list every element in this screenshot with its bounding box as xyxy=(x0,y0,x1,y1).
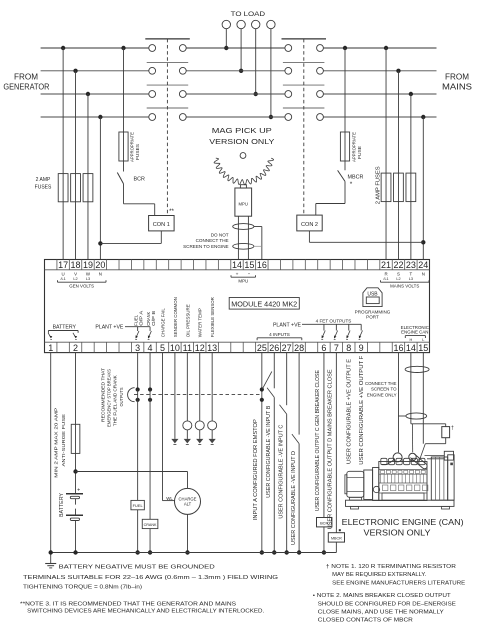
svg-text:CHARGE FAIL: CHARGE FAIL xyxy=(160,308,165,337)
wire CON2 coil to neutral xyxy=(309,231,423,242)
label ELECTRONIC ENGINE (CAN) xyxy=(342,517,464,527)
emergency stop contact on input A xyxy=(260,372,272,402)
svg-text:USER CONFIGURABLE -VE INPUT B: USER CONFIGURABLE -VE INPUT B xyxy=(266,405,272,498)
wire screen to twisted pair xyxy=(398,415,405,417)
wire mains T drop xyxy=(409,92,413,260)
svg-text:28: 28 xyxy=(294,343,304,353)
svg-text:16: 16 xyxy=(393,343,403,353)
wire MBCR feed xyxy=(343,46,347,132)
wire MBCR relay to ground bus xyxy=(335,542,337,552)
svg-text:V: V xyxy=(74,272,77,277)
wire resistor to CAN L xyxy=(425,438,445,444)
svg-text:MPU: MPU xyxy=(239,202,248,207)
svg-text:MODULE 4420 MK2: MODULE 4420 MK2 xyxy=(231,299,297,308)
svg-text:ANTI-SURGE FUSE: ANTI-SURGE FUSE xyxy=(61,414,67,467)
wire terminal 2 to fuse xyxy=(75,353,77,425)
svg-text:14: 14 xyxy=(232,260,242,270)
wire gen W drop xyxy=(86,92,90,260)
module name plate MODULE 4420 MK2 xyxy=(229,298,299,310)
wire FUEL to ground bus xyxy=(135,510,139,555)
svg-text:CLOSE MAINS, AND USE THE: CLOSE MAINS, AND USE THE NORMALLY xyxy=(318,609,444,615)
svg-text:USB: USB xyxy=(367,291,378,297)
svg-text:FUEL: FUEL xyxy=(133,503,144,508)
svg-text:†: † xyxy=(451,426,454,432)
twisted pair mark upper xyxy=(233,224,254,230)
svg-text:PLANT +VE: PLANT +VE xyxy=(95,325,124,331)
solenoid CRANK xyxy=(142,519,158,528)
wire water temp sender xyxy=(199,353,201,421)
top terminal numbers xyxy=(58,260,428,270)
svg-text:15: 15 xyxy=(418,343,428,353)
svg-text:FUSE: FUSE xyxy=(357,146,362,159)
svg-text:DO NOT: DO NOT xyxy=(211,232,229,237)
label 4 INPUTS bracket xyxy=(257,332,302,340)
label dagger note-1 marker xyxy=(451,426,454,432)
label MAG PICK UP VERSION ONLY xyxy=(209,126,274,146)
svg-text:14: 14 xyxy=(406,343,416,353)
svg-text:SCREEN TO: SCREEN TO xyxy=(371,387,397,392)
node PLANT +VE rail to 4 FET outputs xyxy=(273,319,363,340)
wire bus row L1 xyxy=(41,47,437,49)
svg-text:• NOTE 2. MAINS BREAKER CL: • NOTE 2. MAINS BREAKER CLOSED OUTPUT xyxy=(313,593,452,599)
wire input C upper xyxy=(286,353,288,406)
2A fuse mains T xyxy=(406,173,416,202)
label SENDER COMMON xyxy=(173,297,178,337)
wire terminal 1 to ground bus xyxy=(50,353,52,553)
svg-text:PROGRAMMING: PROGRAMMING xyxy=(355,309,391,314)
anti-surge fuse xyxy=(71,424,80,453)
label FROM MAINS xyxy=(442,72,472,91)
svg-text:BATTERY NEGATIVE MUST BE G: BATTERY NEGATIVE MUST BE GROUNDED xyxy=(59,565,215,571)
label * marker at MBCR relay xyxy=(339,529,341,531)
wire gen neutral drop xyxy=(98,115,102,260)
wire BCR relay to ground bus xyxy=(322,527,326,555)
wire flexible sender to ground xyxy=(211,430,213,439)
svg-text:GENERATOR: GENERATOR xyxy=(3,83,49,92)
svg-text:BATTERY: BATTERY xyxy=(53,324,77,330)
twisted pair mark CAN lower xyxy=(406,413,427,419)
wire load phase 4 xyxy=(269,29,273,120)
solenoid FUEL xyxy=(131,500,144,509)
label USER CONFIGURABLE -VE INPUT D xyxy=(291,451,297,545)
ground symbol oil sender xyxy=(184,439,191,445)
2A fuse mains R xyxy=(381,173,391,202)
module 4420 outline xyxy=(45,260,430,353)
svg-text:TIGHTENING TORQUE = 0.8Nm: TIGHTENING TORQUE = 0.8Nm (7lb–in) xyxy=(23,584,142,590)
wire CAN screen terminal 16 xyxy=(397,353,399,453)
wire input D upper xyxy=(298,353,300,435)
label USER CONFIGURABLE +VE OUTPUT F xyxy=(359,356,365,465)
BCR aux contact xyxy=(117,161,123,184)
engine CAN connection boss 2 xyxy=(409,453,416,460)
svg-text:10: 10 xyxy=(170,343,180,353)
svg-text:9: 9 xyxy=(359,343,364,353)
label BATTERY xyxy=(59,492,65,517)
svg-text:ENGINE ONLY: ENGINE ONLY xyxy=(367,392,397,397)
water temp sender xyxy=(195,421,204,430)
wire bus row L2 xyxy=(41,70,437,72)
label CHARGE FAIL xyxy=(160,308,165,337)
svg-text:2 AMP FUSES: 2 AMP FUSES xyxy=(376,166,382,205)
svg-text:VERSION ONLY: VERSION ONLY xyxy=(209,137,274,146)
label battery + xyxy=(77,488,80,494)
svg-text:BATTERY: BATTERY xyxy=(59,492,65,517)
svg-text:MBCR: MBCR xyxy=(331,537,342,541)
svg-text:OUTPUTS: OUTPUTS xyxy=(119,388,124,407)
2A fuse gen V xyxy=(71,174,81,202)
wire output D to MBCR relay xyxy=(335,353,337,533)
svg-text:MBCR: MBCR xyxy=(348,175,364,181)
svg-text:† NOTE 1. 120 R TERMINATIN: † NOTE 1. 120 R TERMINATING RESISTOR xyxy=(326,564,456,570)
svg-text:CON 1: CON 1 xyxy=(153,222,170,228)
svg-text:25: 25 xyxy=(257,343,267,353)
svg-text:13: 13 xyxy=(207,343,217,353)
genset bell housing xyxy=(364,468,379,501)
svg-text:17: 17 xyxy=(58,260,68,270)
svg-text:WATER TEMP: WATER TEMP xyxy=(198,308,203,337)
wire load phase 1 xyxy=(224,29,228,51)
svg-text:RECOMMENDED THAT: RECOMMENDED THAT xyxy=(100,368,105,422)
svg-text:15: 15 xyxy=(244,260,254,270)
label OIL PRESSURE xyxy=(185,304,190,337)
label * note-2 marker at MBCR xyxy=(350,181,353,188)
twisted pair mark CAN upper xyxy=(405,366,429,372)
label VERSION ONLY xyxy=(364,528,431,538)
svg-text:1: 1 xyxy=(48,343,53,353)
svg-text:PORT: PORT xyxy=(366,315,379,320)
label WL xyxy=(166,496,173,501)
svg-text:TO LOAD: TO LOAD xyxy=(231,11,266,18)
svg-text:12: 12 xyxy=(195,343,205,353)
wire flexible sender xyxy=(211,353,213,421)
dot battery on ground bus xyxy=(73,550,77,554)
svg-text:+: + xyxy=(77,488,80,494)
note 1 line 1 xyxy=(326,564,456,570)
svg-text:FUSES: FUSES xyxy=(35,185,52,191)
note tightening torque xyxy=(23,584,142,590)
label FLEXIBLE SENSOR xyxy=(210,297,215,338)
generator contactor main contacts xyxy=(145,39,190,121)
label FROM GENERATOR xyxy=(3,72,49,91)
bottom terminal numbers xyxy=(48,343,428,353)
label USER CONFIGURABLE -VE INPUT C xyxy=(279,424,285,518)
wire input A from terminal 25 xyxy=(261,353,263,553)
svg-text:SCREEN TO ENGINE: SCREEN TO ENGINE xyxy=(183,244,229,249)
svg-text:CLOSED CONTACTS OF MBCR: CLOSED CONTACTS OF MBCR xyxy=(318,618,413,624)
wire input B lower to bus xyxy=(272,397,276,555)
label FUEL O/P A xyxy=(134,311,144,326)
svg-text:2: 2 xyxy=(73,343,78,353)
svg-text:SWITCHING DEVICES ARE MECHA: SWITCHING DEVICES ARE MECHANICALLY AND E… xyxy=(27,609,264,615)
note 2 line 2 xyxy=(318,601,456,607)
node battery positive rail xyxy=(76,471,188,473)
svg-text:11: 11 xyxy=(183,343,192,353)
svg-text:SEE ENGINE MANUFACTURERS LI: SEE ENGINE MANUFACTURERS LITERATURE xyxy=(332,581,465,587)
resistor 120R terminating xyxy=(442,427,450,438)
note 2 line 1 xyxy=(313,593,452,599)
genset base skid xyxy=(346,500,455,509)
svg-text:EMERGENCY STOP BREAKS: EMERGENCY STOP BREAKS xyxy=(107,369,112,427)
appropriate fuse BCR xyxy=(119,132,128,161)
svg-text:USER CONFIGURABLE -VE INPUT C: USER CONFIGURABLE -VE INPUT C xyxy=(279,424,285,518)
engine CAN connection boss 1 xyxy=(393,453,402,462)
label APPROPRIATE FUSES left xyxy=(130,132,141,162)
wire bus row L3 xyxy=(41,93,437,95)
svg-text:18: 18 xyxy=(71,260,81,270)
MBCR aux contact xyxy=(338,161,345,181)
gear center mark xyxy=(240,153,246,159)
note 2 line 4 xyxy=(318,618,413,624)
svg-text:3: 3 xyxy=(135,343,140,353)
svg-text:O/P B: O/P B xyxy=(151,311,156,326)
label DO NOT CONNECT THE SCREEN TO ENGINE xyxy=(183,232,229,249)
svg-text:27: 27 xyxy=(282,343,292,353)
svg-text:N: N xyxy=(422,272,425,277)
node PLANT +VE rail to outputs A B xyxy=(95,325,151,340)
svg-text:H: H xyxy=(409,338,412,342)
svg-text:USER CONFIGURABLE OUTPUT D MAI: USER CONFIGURABLE OUTPUT D MAINS BREAKER… xyxy=(327,369,333,530)
wire crank contact to CRANK solenoid xyxy=(149,400,151,520)
label CRANK O/P B xyxy=(146,311,156,326)
wire arrow into terminal 2 (+VE) xyxy=(73,333,77,340)
wire BCR feed xyxy=(121,46,125,132)
wire MPU pair to terminals 14 15 xyxy=(238,216,248,259)
emergency stop contacts on fuel and crank xyxy=(136,387,153,402)
svg-text:APPROPRIATE: APPROPRIATE xyxy=(130,132,135,162)
mains contactor main contacts xyxy=(282,39,327,121)
ground symbol battery negative xyxy=(45,550,56,568)
svg-text:MAINS VOLTS: MAINS VOLTS xyxy=(390,283,419,288)
wire terminal 4 (crank) upper xyxy=(149,353,151,390)
svg-text:N: N xyxy=(99,272,102,277)
wire mains R drop xyxy=(384,46,388,260)
wire gen V drop xyxy=(73,69,77,260)
engine front pulley xyxy=(373,486,379,492)
svg-text:/L1: /L1 xyxy=(60,277,65,281)
wire CAN H into engine xyxy=(411,424,413,452)
2A fuse mains S xyxy=(394,173,404,202)
oil pressure sender xyxy=(183,421,192,430)
svg-text:**: ** xyxy=(169,208,174,215)
svg-text:MIN 2 AMP MAX 20 AMP: MIN 2 AMP MAX 20 AMP xyxy=(54,408,60,478)
wire input D lower to bus xyxy=(297,444,301,555)
svg-text:USER CONFIGURABLE OUTPUT C GEN: USER CONFIGURABLE OUTPUT C GEN BREAKER C… xyxy=(315,370,321,512)
ground symbol sender common xyxy=(171,439,178,445)
flywheel ring gear xyxy=(214,158,274,185)
svg-text:ELECTRONIC ENGINE (CAN): ELECTRONIC ENGINE (CAN) xyxy=(342,517,464,527)
engine radiator hose xyxy=(425,456,445,459)
wire CON1 coil to neutral xyxy=(100,231,161,244)
wire output C to BCR relay xyxy=(323,353,325,518)
svg-text:CON 2: CON 2 xyxy=(301,222,318,228)
ground symbol flexible sender xyxy=(209,439,216,445)
wire fuel contact to FUEL solenoid xyxy=(137,400,139,501)
label BCR xyxy=(134,177,145,183)
svg-text:MAG PICK UP: MAG PICK UP xyxy=(212,126,272,135)
svg-text:22: 22 xyxy=(393,260,403,270)
appropriate fuse MBCR xyxy=(340,132,349,161)
wire gen U drop xyxy=(61,46,65,260)
switch input C xyxy=(279,405,286,414)
wire CAN H to resistor xyxy=(411,424,446,427)
svg-text:MAINS: MAINS xyxy=(442,83,472,92)
label MAINS VOLTS bracket xyxy=(381,272,430,289)
svg-text:16: 16 xyxy=(257,260,267,270)
label TO LOAD xyxy=(231,11,266,18)
relay coil MBCR xyxy=(328,533,344,542)
wire sender common to ground xyxy=(174,353,176,439)
wire terminal 5 charge fail xyxy=(162,353,174,501)
wire arrow into terminal 1 (-VE) xyxy=(48,333,52,340)
note 2 line 3 xyxy=(318,609,444,615)
svg-text:FROM: FROM xyxy=(445,72,469,81)
svg-text:4 INPUTS: 4 INPUTS xyxy=(269,332,290,337)
label MBCR xyxy=(348,175,364,181)
svg-text:L: L xyxy=(422,338,424,342)
svg-text:MPU: MPU xyxy=(238,278,248,283)
svg-text:23: 23 xyxy=(406,260,416,270)
svg-text:SHOULD BE CONFIGURED FOR D: SHOULD BE CONFIGURED FOR DE–ENERGISE xyxy=(318,601,456,607)
engine pipe detail xyxy=(382,460,395,465)
note battery negative xyxy=(59,565,215,571)
svg-text:4: 4 xyxy=(148,343,153,353)
wire bus row N xyxy=(41,116,437,118)
wire CAN H terminal 14 xyxy=(410,353,412,424)
coil CON 2 xyxy=(297,215,322,231)
svg-text:CONNECT THE: CONNECT THE xyxy=(365,381,397,386)
label USER CONFIGURABLE OUTPUT D MAINS BREAKER CLOSE xyxy=(327,369,333,530)
genset alternator xyxy=(345,471,364,500)
wire CAN L into engine xyxy=(419,444,425,462)
wire oil pressure sender xyxy=(186,353,188,421)
switch input B xyxy=(267,388,274,397)
wire MBCR to CON2 coil xyxy=(316,181,345,215)
svg-text:20: 20 xyxy=(95,260,105,270)
svg-text:OIL PRESSURE: OIL PRESSURE xyxy=(185,304,190,337)
label PROGRAMMING PORT xyxy=(355,309,391,319)
svg-text:ENGINE CAN: ENGINE CAN xyxy=(401,330,428,335)
wire mains S drop xyxy=(396,69,400,260)
svg-text:5: 5 xyxy=(160,343,165,353)
wire plant rail to alternator top xyxy=(187,472,189,489)
svg-text:FUSES: FUSES xyxy=(135,144,140,160)
ground symbol water sender xyxy=(196,439,203,445)
svg-text:BCR: BCR xyxy=(134,177,145,183)
svg-text:WL: WL xyxy=(166,496,173,501)
wire ground bus xyxy=(51,552,337,554)
svg-text:ALT: ALT xyxy=(184,502,192,507)
flexible sender xyxy=(208,421,217,430)
svg-text:L3: L3 xyxy=(409,277,413,281)
svg-text:USER CONFIGURABLE +VE OUTPUT F: USER CONFIGURABLE +VE OUTPUT F xyxy=(359,356,365,465)
CON2 actuator dashed link xyxy=(303,39,305,215)
relay coil BCR xyxy=(317,518,332,527)
svg-text:-: - xyxy=(248,272,250,278)
wire CRANK to ground bus xyxy=(148,529,152,555)
alternator CHARGE ALT xyxy=(175,488,201,514)
battery B1 xyxy=(66,494,83,521)
note terminals suitable xyxy=(23,575,278,581)
svg-text:7: 7 xyxy=(334,343,339,353)
svg-text:L2: L2 xyxy=(396,277,400,281)
svg-text:APPROPRIATE: APPROPRIATE xyxy=(352,132,357,162)
wire water sender to ground xyxy=(199,430,201,439)
label WATER TEMP xyxy=(198,308,203,337)
label MPU bracket xyxy=(231,272,256,284)
svg-text:/L1: /L1 xyxy=(383,277,388,281)
svg-text:CONNECT THE: CONNECT THE xyxy=(196,238,229,243)
label BATTERY bracket xyxy=(48,324,78,333)
wire input C lower to bus xyxy=(284,414,288,555)
svg-text:2 AMP: 2 AMP xyxy=(36,177,51,183)
svg-text:4 FET OUTPUTS: 4 FET OUTPUTS xyxy=(316,319,352,324)
switch input D xyxy=(292,434,299,444)
coil CON 1 xyxy=(149,216,175,231)
svg-text:SENDER COMMON: SENDER COMMON xyxy=(173,297,178,337)
svg-text:L2: L2 xyxy=(73,277,77,281)
USB programming port icon xyxy=(363,288,382,307)
label USER CONFIGURABLE OUTPUT C GEN BREAKER CLOSE xyxy=(315,370,321,512)
svg-text:THE FUEL AND CRANK: THE FUEL AND CRANK xyxy=(113,374,118,426)
svg-text:MAY BE REQUIRED EXTERNALLY.: MAY BE REQUIRED EXTERNALLY. xyxy=(332,572,426,578)
twisted pair mark lower xyxy=(233,243,254,249)
label GEN VOLTS bracket xyxy=(58,272,107,289)
svg-text:VERSION ONLY: VERSION ONLY xyxy=(364,528,431,538)
svg-text:+: + xyxy=(236,272,239,277)
genset engine block xyxy=(379,458,428,500)
wire BCR to CON1 coil xyxy=(124,184,155,216)
wire fuse to battery + xyxy=(73,453,77,493)
svg-text:TERMINALS SUITABLE FOR 22–1: TERMINALS SUITABLE FOR 22–16 AWG (0.6mm … xyxy=(23,575,278,581)
svg-text:8: 8 xyxy=(346,343,351,353)
svg-text:R: R xyxy=(384,272,387,277)
svg-text:INPUT A CONFIGURED FOR EMSTOP: INPUT A CONFIGURED FOR EMSTOP xyxy=(253,419,259,521)
svg-text:PLANT +VE: PLANT +VE xyxy=(273,322,302,328)
label 2 AMP FUSES left xyxy=(35,177,52,191)
wire alternator to ground bus xyxy=(185,514,189,554)
svg-text:FLEXIBLE SENSOR: FLEXIBLE SENSOR xyxy=(210,297,215,338)
svg-text:GEN VOLTS: GEN VOLTS xyxy=(69,283,94,288)
label USER CONFIGURABLE -VE INPUT B xyxy=(266,405,272,498)
svg-text:S: S xyxy=(397,272,400,277)
module top terminal strip xyxy=(45,260,430,270)
genset radiator xyxy=(431,451,454,500)
svg-text:26: 26 xyxy=(269,343,279,353)
engine exhaust pipe elbow xyxy=(410,454,427,469)
svg-text:U: U xyxy=(62,272,65,277)
wire mains neutral drop xyxy=(421,115,425,260)
svg-text:CRANK: CRANK xyxy=(144,523,157,527)
wire MPU screen to terminal 16 xyxy=(254,227,262,260)
dot input A on ground bus xyxy=(260,550,264,554)
label APPROPRIATE FUSE right xyxy=(352,132,363,162)
emergency stop mechanical dashed link xyxy=(134,394,260,396)
label MIN 2 AMP MAX 20 AMP ANTI-SURGE FUSE xyxy=(54,408,68,478)
wire load phase 2 xyxy=(239,29,243,73)
label ELECTRONIC ENGINE CAN bracket xyxy=(401,325,429,342)
2A fuse gen W xyxy=(83,174,93,202)
wire input B upper xyxy=(273,353,275,389)
label RECOMMENDED THAT EMERGENCY STOP BREAKS THE FUEL AND CRANK OUTPUTS xyxy=(100,368,124,427)
label 2 AMP FUSES right xyxy=(376,166,382,205)
wire load phase 3 xyxy=(254,29,258,97)
svg-text:19: 19 xyxy=(83,260,93,270)
emergency stop pushbutton head xyxy=(128,388,135,402)
wire CAN L terminal 15 xyxy=(422,353,424,444)
label ** note-3 marker xyxy=(169,208,174,215)
svg-text:CHARGE: CHARGE xyxy=(179,496,197,501)
load connection circles xyxy=(222,20,275,28)
